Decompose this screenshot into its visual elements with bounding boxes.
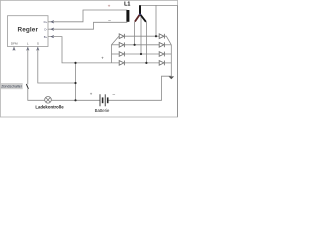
junction node B+/exciter bbox=[74, 62, 76, 64]
star point node bbox=[139, 14, 141, 16]
field winding L1 bbox=[126, 10, 129, 22]
junction node star row3 bbox=[140, 53, 142, 55]
diode D8 (exciter, right) bbox=[159, 61, 164, 66]
wire row2 anode stub bbox=[112, 44, 119, 46]
diode D7 (plus, star point) bbox=[159, 52, 164, 57]
wire S pin down and right bbox=[38, 46, 76, 83]
wire row2 cathode stub bbox=[165, 44, 172, 46]
diode D4 (exciter, left) bbox=[119, 61, 124, 66]
junction node phase u row2 bbox=[134, 44, 136, 46]
regulator box U1 Regler bbox=[8, 16, 49, 47]
connector arrow pin B+ bbox=[51, 35, 54, 37]
diode D1 (minus, phase V) bbox=[119, 34, 124, 39]
wire row3 middle bbox=[125, 53, 159, 55]
stator winding phase w (down-right leg) bbox=[140, 15, 146, 22]
svg-text:+: + bbox=[101, 56, 104, 61]
wire L pin down to switch bbox=[27, 46, 29, 84]
wire row4 middle bbox=[125, 62, 159, 64]
svg-text:–: – bbox=[113, 91, 116, 96]
wire B+ vertical branch bbox=[75, 63, 77, 100]
wire bottom rail battery minus to ground branch bbox=[108, 76, 171, 100]
connector arrow pin DF bbox=[51, 28, 54, 30]
wire row1 cathode to right bus diagonal bbox=[165, 36, 172, 45]
wire star point drop bbox=[140, 16, 142, 54]
junction node S wire bbox=[74, 82, 76, 84]
svg-text:D+: D+ bbox=[44, 20, 48, 24]
svg-text:D-: D- bbox=[44, 27, 47, 31]
wire row4 cathode stub bbox=[165, 62, 172, 64]
wire enclosure right edge bbox=[176, 5, 178, 117]
stator winding phase v (top leg) bbox=[139, 5, 141, 14]
wire left diode bus bbox=[112, 36, 119, 63]
junction node phase w row4 bbox=[145, 62, 147, 64]
stator winding phase u (down-left leg) bbox=[135, 15, 140, 22]
wire bottom rail lamp to battery bbox=[51, 99, 100, 101]
svg-text:Zündschalter: Zündschalter bbox=[1, 85, 23, 89]
diode D5 (plus, phase V) bbox=[159, 34, 164, 39]
svg-text:B+: B+ bbox=[44, 35, 48, 39]
svg-text:L1: L1 bbox=[124, 2, 130, 8]
connector arrow pin D+ bbox=[13, 21, 54, 51]
wire row3 cathode stub bbox=[165, 53, 172, 55]
svg-text:DFM: DFM bbox=[11, 41, 18, 45]
svg-text:L: L bbox=[27, 41, 29, 45]
wire switch to bottom rail bbox=[28, 89, 45, 100]
svg-text:Batterie: Batterie bbox=[95, 108, 110, 113]
ground bbox=[169, 76, 175, 79]
connector arrow pin L bbox=[27, 48, 29, 51]
svg-text:+: + bbox=[90, 91, 93, 96]
wire DFM stub bbox=[13, 46, 15, 50]
switch S1 ignition bbox=[26, 84, 28, 89]
wire phase v top loop bbox=[141, 4, 178, 6]
border frame bbox=[0, 0, 177, 117]
label box Zündschalter bbox=[1, 83, 23, 89]
connector arrow pin S bbox=[37, 48, 39, 51]
lamp H1 charge indicator bbox=[45, 97, 52, 104]
wire right bus to ground bbox=[170, 45, 172, 76]
wire DF- from regulator pin DF to field bottom bbox=[48, 22, 127, 29]
svg-text:S: S bbox=[37, 41, 39, 45]
wire phase w drop bbox=[145, 22, 147, 63]
connector arrow pin DFM bbox=[13, 48, 15, 51]
wire B+ from regulator pin B+ to exciter rail bbox=[48, 37, 119, 63]
wire DF+ from regulator pin D+ to field top bbox=[48, 10, 127, 22]
svg-text:Regler: Regler bbox=[18, 26, 39, 33]
wire row2 middle bbox=[125, 44, 159, 46]
diode D6 (plus, phase U) bbox=[159, 42, 164, 47]
wire row1 middle bbox=[125, 35, 159, 37]
svg-text:Ladekontrolle: Ladekontrolle bbox=[35, 105, 64, 110]
junction node phase v row1 bbox=[155, 35, 157, 37]
diode D3 (minus, star point) bbox=[119, 52, 124, 57]
svg-text:–: – bbox=[108, 17, 111, 22]
diode D2 (minus, phase U) bbox=[119, 42, 124, 47]
svg-text:+: + bbox=[108, 4, 111, 9]
battery G1 bbox=[99, 94, 101, 106]
wire phase v vertical bbox=[155, 5, 157, 36]
wire phase u drop bbox=[134, 22, 136, 45]
junction node battery plus rail bbox=[74, 99, 76, 101]
wire row3 anode stub bbox=[112, 53, 119, 55]
